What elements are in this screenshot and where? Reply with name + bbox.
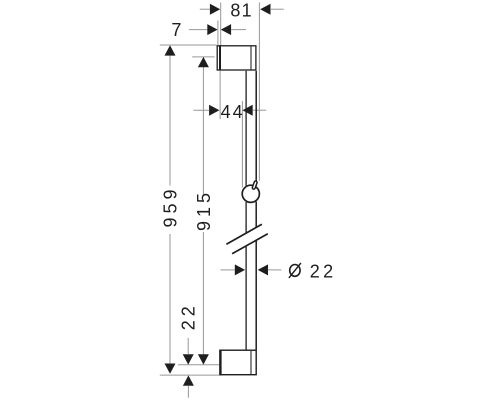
rail right edge segment 3 (below break)	[255, 241, 257, 350]
dimension 44 right arrow	[242, 105, 252, 116]
dimension 7 line tail	[189, 29, 207, 31]
dimension 915 line lower	[202, 232, 204, 354]
extension line E4 (44 left, below bracket)	[219, 71, 221, 119]
dimension 7 left arrow	[207, 24, 217, 35]
dimension 959 line lower	[169, 234, 171, 364]
dimension dia22 left tail	[221, 269, 235, 271]
svg-text:81: 81	[230, 1, 252, 21]
svg-text:44: 44	[221, 102, 245, 122]
dimension 81 left arrow	[210, 4, 220, 15]
dimension dia22 left arrow	[235, 264, 245, 275]
slider lever	[252, 181, 258, 190]
slider knob circle	[242, 185, 259, 202]
dimension 81 line right tail	[271, 8, 284, 10]
dimension 81 right arrow	[260, 4, 270, 15]
svg-text:7: 7	[171, 20, 181, 40]
bottom bracket wall plate (thick left edge)	[219, 350, 221, 376]
break symbol slash 1	[226, 224, 262, 244]
dimension 915 line upper	[202, 67, 204, 196]
rail right edge segment 1	[255, 71, 257, 181]
dimension 915 top arrow	[198, 57, 209, 67]
dimension 44 right tail	[253, 109, 267, 111]
svg-text:959: 959	[161, 185, 181, 227]
dimension 22 top arrow	[183, 354, 194, 364]
dimension 959 bottom arrow	[165, 364, 176, 374]
top bracket inner seam line	[250, 46, 252, 70]
dimension 81 line left tail	[200, 8, 210, 10]
dimension 22 lower line	[187, 386, 189, 398]
svg-text:915: 915	[194, 189, 214, 231]
dimension 959 line upper	[169, 56, 171, 186]
dimension 22 line	[187, 338, 189, 354]
extension line H1 (bracket top level)	[160, 44, 217, 46]
extension line H2 (rail top end level)	[192, 56, 214, 58]
break symbol slash 2	[232, 234, 268, 254]
rail left edge segment 1	[245, 71, 247, 186]
rail left edge segment 3 (below break)	[245, 246, 247, 349]
dimension 7 right arrow	[221, 24, 231, 35]
dimension 44 left tail	[193, 109, 209, 111]
extension line E2 (81 left, plate inner face)	[220, 3, 222, 46]
bottom bracket inner seam line	[250, 351, 252, 374]
dimension 959 top arrow	[165, 45, 176, 55]
dimension dia22 right tail	[268, 269, 282, 271]
extension line E1 (7 left, plate outer face)	[217, 21, 219, 46]
bottom wall bracket outline	[220, 350, 256, 375]
dimension dia22 label	[290, 265, 300, 277]
extension line H3 (rail bottom end level)	[178, 364, 219, 366]
rail right edge segment 2 (between knob and break)	[255, 202, 257, 228]
top bracket wall plate inner face (thick)	[219, 45, 221, 70]
dimension 22 bottom arrow	[183, 375, 194, 385]
extension line E5 (44 right, to slider knob)	[241, 101, 243, 188]
dimension dia22 right arrow	[258, 264, 268, 275]
dimension 44 left arrow	[209, 105, 219, 116]
svg-text:22: 22	[178, 302, 198, 330]
svg-text:22: 22	[310, 262, 337, 282]
rail left edge segment 2 (between knob and break)	[245, 202, 247, 233]
dimension 915 bottom arrow	[198, 354, 209, 364]
top wall bracket outline	[217, 46, 256, 70]
dimension 7 right tail	[231, 29, 246, 31]
extension line H4 (bracket bottom level)	[160, 374, 219, 376]
extension line E3 (81 right, to slider knob)	[258, 3, 260, 181]
